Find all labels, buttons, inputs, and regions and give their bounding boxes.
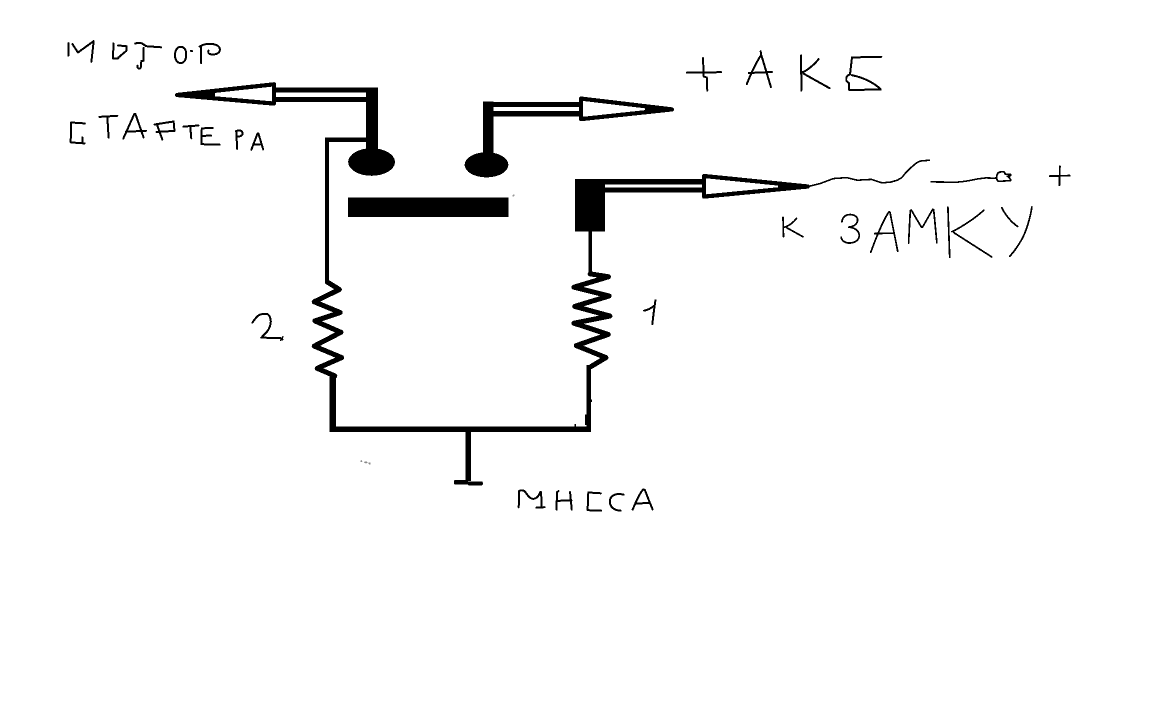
tick above ground bus near corner: [574, 424, 576, 427]
switch contact loop (small scribble): [995, 172, 1011, 182]
ground symbol bar: [454, 480, 468, 485]
wire: thin lead to ignition switch (squiggle): [808, 160, 929, 186]
plus sign at switch: [1050, 166, 1070, 185]
wire: thin lead from ignition terminal to coil 1: [588, 231, 592, 274]
arrow to starter motor (left pointing, hollow head): [177, 84, 378, 148]
ignition terminal (solid rectangle): [575, 179, 605, 232]
label "МОТОР" (hand written): [68, 41, 220, 68]
wire: second squiggle segment: [931, 178, 995, 182]
arrow solid tip: [645, 106, 672, 112]
wire: coil 1 bottom lead: [587, 365, 592, 432]
label "МАССА" (hand written): [519, 490, 653, 511]
terminal stud (right ellipse): [465, 152, 509, 177]
faint specks above ground bus: [360, 460, 362, 462]
contact plate (solid bar): [348, 197, 509, 217]
jog nubs on coil 1 lead: [589, 399, 592, 402]
speck near plate: [513, 195, 515, 197]
arrow solid tip: [778, 184, 808, 190]
arrow solid tip: [177, 91, 215, 100]
label "СТАРТЕРА" (hand written): [71, 114, 264, 150]
wire: coil 2 bottom lead: [330, 375, 336, 432]
ground symbol stub: [465, 432, 471, 481]
label "+АКБ" (hand written): [687, 51, 882, 90]
wire: thick vertical drop to left stud: [366, 88, 378, 149]
wire: thick vertical drop to right stud: [483, 102, 494, 154]
label "1": [644, 300, 655, 324]
wire: double-line shaft to starter terminal: [272, 88, 369, 93]
arrow to ignition lock К ЗАМКУ (right pointing, hollow head): [604, 176, 808, 197]
coil 1 (hold-in winding, zigzag): [574, 274, 610, 367]
stray tick near label 2: [280, 336, 283, 340]
wire: double-line shaft from stud: [492, 102, 583, 107]
wire: bottom ground bus: [330, 427, 592, 432]
wire: double-line shaft from ignition terminal: [604, 179, 706, 184]
arrow to battery +АКБ (right pointing, hollow head): [483, 99, 672, 154]
label "К ЗАМКУ" (hand written): [783, 207, 1032, 257]
label "2": [252, 314, 282, 340]
terminal stud (left ellipse): [348, 148, 395, 176]
coil 2 (pull-in winding, zigzag): [314, 282, 342, 376]
wire: thin L wire from stud column to coil 2: [327, 140, 368, 284]
